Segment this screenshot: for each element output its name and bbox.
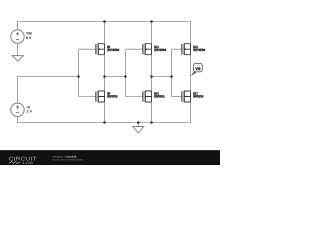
wire stage2 out to stage3 gate: [152, 76, 172, 78]
junction dot out2: [150, 75, 153, 78]
junction dot gnd-M16: [150, 121, 153, 124]
junction dot gnd-M8: [103, 121, 106, 124]
wire stage3 output: [190, 55, 192, 91]
svg-text:5 V: 5 V: [26, 36, 32, 40]
junction dot gate2: [124, 75, 127, 78]
svg-text:IRF9530: IRF9530: [193, 48, 205, 52]
wire VDD top rail: [18, 21, 191, 23]
voltage source Vi: [11, 103, 33, 116]
voltage source VDD: [11, 30, 32, 43]
transistor M9 IRF9530 (PMOS): [96, 43, 120, 55]
wire M15 drain drop from rail: [190, 22, 192, 44]
wire M17 source to ground rail: [190, 102, 192, 123]
wire M8 source to ground rail: [104, 102, 106, 123]
svg-text:http://circuitlab.com/c584da35: http://circuitlab.com/c584da358zdqr: [53, 159, 84, 162]
junction dot rail-M9: [103, 20, 106, 23]
node V6 label bubble: [191, 64, 202, 77]
wire Vi bottom lead: [18, 117, 105, 123]
wire M16 gate lead: [126, 96, 143, 98]
transistor M8 IRF530 (NMOS): [96, 91, 118, 103]
svg-text:V6: V6: [195, 67, 200, 71]
junction dot rail-M14: [150, 20, 153, 23]
svg-text:IRF530: IRF530: [107, 94, 117, 98]
wire VDD source top lead: [17, 22, 19, 30]
footer credit text: [53, 155, 84, 161]
svg-text:IRF530: IRF530: [154, 94, 164, 98]
wire VDD source bottom lead: [17, 43, 19, 55]
wire ground bottom rail: [105, 122, 191, 124]
wire M16 source to ground rail: [151, 102, 153, 123]
transistor M16 IRF530 (NMOS): [143, 91, 165, 103]
wire Vi top lead to input node: [18, 77, 79, 104]
wire M9 drain drop from rail: [104, 22, 106, 44]
junction dot out1: [103, 75, 106, 78]
wire stage1 output: [104, 55, 106, 91]
svg-text:VDD: VDD: [26, 32, 32, 36]
transistor M15 IRF9530 (PMOS): [182, 43, 206, 55]
wire stage2 output: [151, 55, 153, 91]
junction dot gnd-symbol: [137, 121, 140, 124]
wire M17 gate lead: [172, 96, 182, 98]
junction dot gate3: [170, 75, 173, 78]
wire stage1 out to stage2 gate: [105, 76, 126, 78]
wire M9 gate lead: [79, 48, 96, 50]
wire M14 gate lead: [126, 48, 143, 50]
wire M14 drain drop from rail: [151, 22, 153, 44]
svg-text:IRF530: IRF530: [193, 94, 203, 98]
footer CircuitLab logo: [9, 157, 38, 165]
ground under VDD: [12, 56, 23, 62]
transistor M14 IRF9530 (PMOS): [143, 43, 167, 55]
wire M15 gate lead: [172, 48, 182, 50]
svg-text:1 V: 1 V: [27, 110, 33, 114]
junction dot input-gate1: [77, 75, 80, 78]
wire stage1 gate bus: [78, 49, 80, 96]
svg-text:IRF9530: IRF9530: [154, 48, 166, 52]
svg-text:IRF9530: IRF9530: [107, 48, 119, 52]
wire stage2 gate bus: [125, 49, 127, 96]
wire M8 gate lead: [79, 96, 96, 98]
transistor M17 IRF530 (NMOS): [182, 91, 204, 103]
wire stage3 gate bus: [171, 49, 173, 96]
footer watermark bar: [0, 150, 220, 165]
ground on bottom rail: [133, 123, 144, 134]
svg-text:LAB: LAB: [23, 161, 34, 165]
